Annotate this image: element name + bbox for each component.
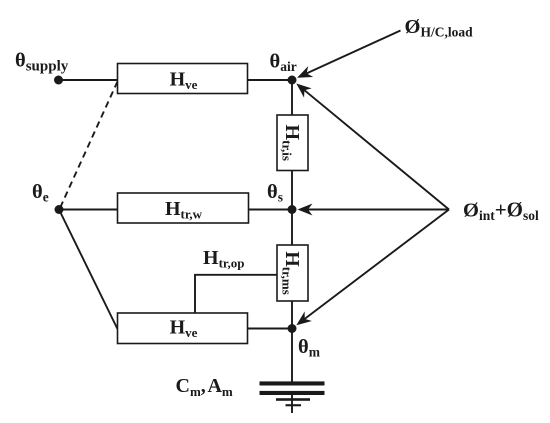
svg-text:θair: θair (270, 51, 297, 75)
svg-text:Øint+Øsol: Øint+Øsol (463, 198, 539, 224)
svg-text:ØH/C,load: ØH/C,load (405, 16, 474, 40)
svg-text:θe: θe (32, 181, 49, 205)
svg-text:Cm, Am: Cm, Am (176, 375, 233, 399)
svg-text:Htr,op: Htr,op (203, 247, 244, 271)
svg-text:θs: θs (267, 181, 283, 205)
svg-text:θsupply: θsupply (15, 50, 69, 75)
svg-text:θm: θm (298, 336, 321, 360)
